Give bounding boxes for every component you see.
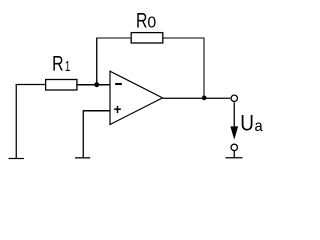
- wire noninverting input: [83, 110, 110, 112]
- ground bar bottom right: [226, 157, 243, 159]
- ground left: [9, 158, 24, 160]
- wire feedback vertical left: [96, 38, 98, 84]
- minus sign: [115, 83, 122, 85]
- svg-text:R: R: [52, 52, 63, 76]
- svg-text:R: R: [136, 9, 147, 33]
- junction node at inverting input: [94, 82, 99, 87]
- svg-text:a: a: [255, 117, 264, 135]
- op-amp U1: [110, 71, 163, 124]
- terminal circle output bottom: [231, 144, 237, 150]
- plus sign: [114, 108, 121, 110]
- ground middle: [75, 157, 90, 159]
- svg-text:1: 1: [65, 58, 70, 75]
- arrowhead Ua: [230, 126, 238, 139]
- wire bottom terminal stem: [233, 151, 235, 158]
- wire feedback top left: [96, 37, 131, 39]
- junction node at output: [202, 96, 207, 101]
- wire feedback top right: [163, 37, 205, 39]
- terminal circle output top: [231, 95, 237, 101]
- wire input horizontal to R1: [16, 84, 46, 86]
- svg-text:U: U: [240, 113, 254, 136]
- wire R1 to op-amp inverting input: [77, 84, 110, 86]
- wire feedback vertical right: [203, 38, 205, 98]
- wire left vertical down to ground: [15, 84, 17, 158]
- svg-text:0: 0: [147, 15, 156, 32]
- wire Ua arrow shaft: [233, 102, 235, 127]
- wire output: [163, 97, 231, 99]
- resistor R0: [131, 33, 163, 43]
- resistor R1: [46, 80, 77, 91]
